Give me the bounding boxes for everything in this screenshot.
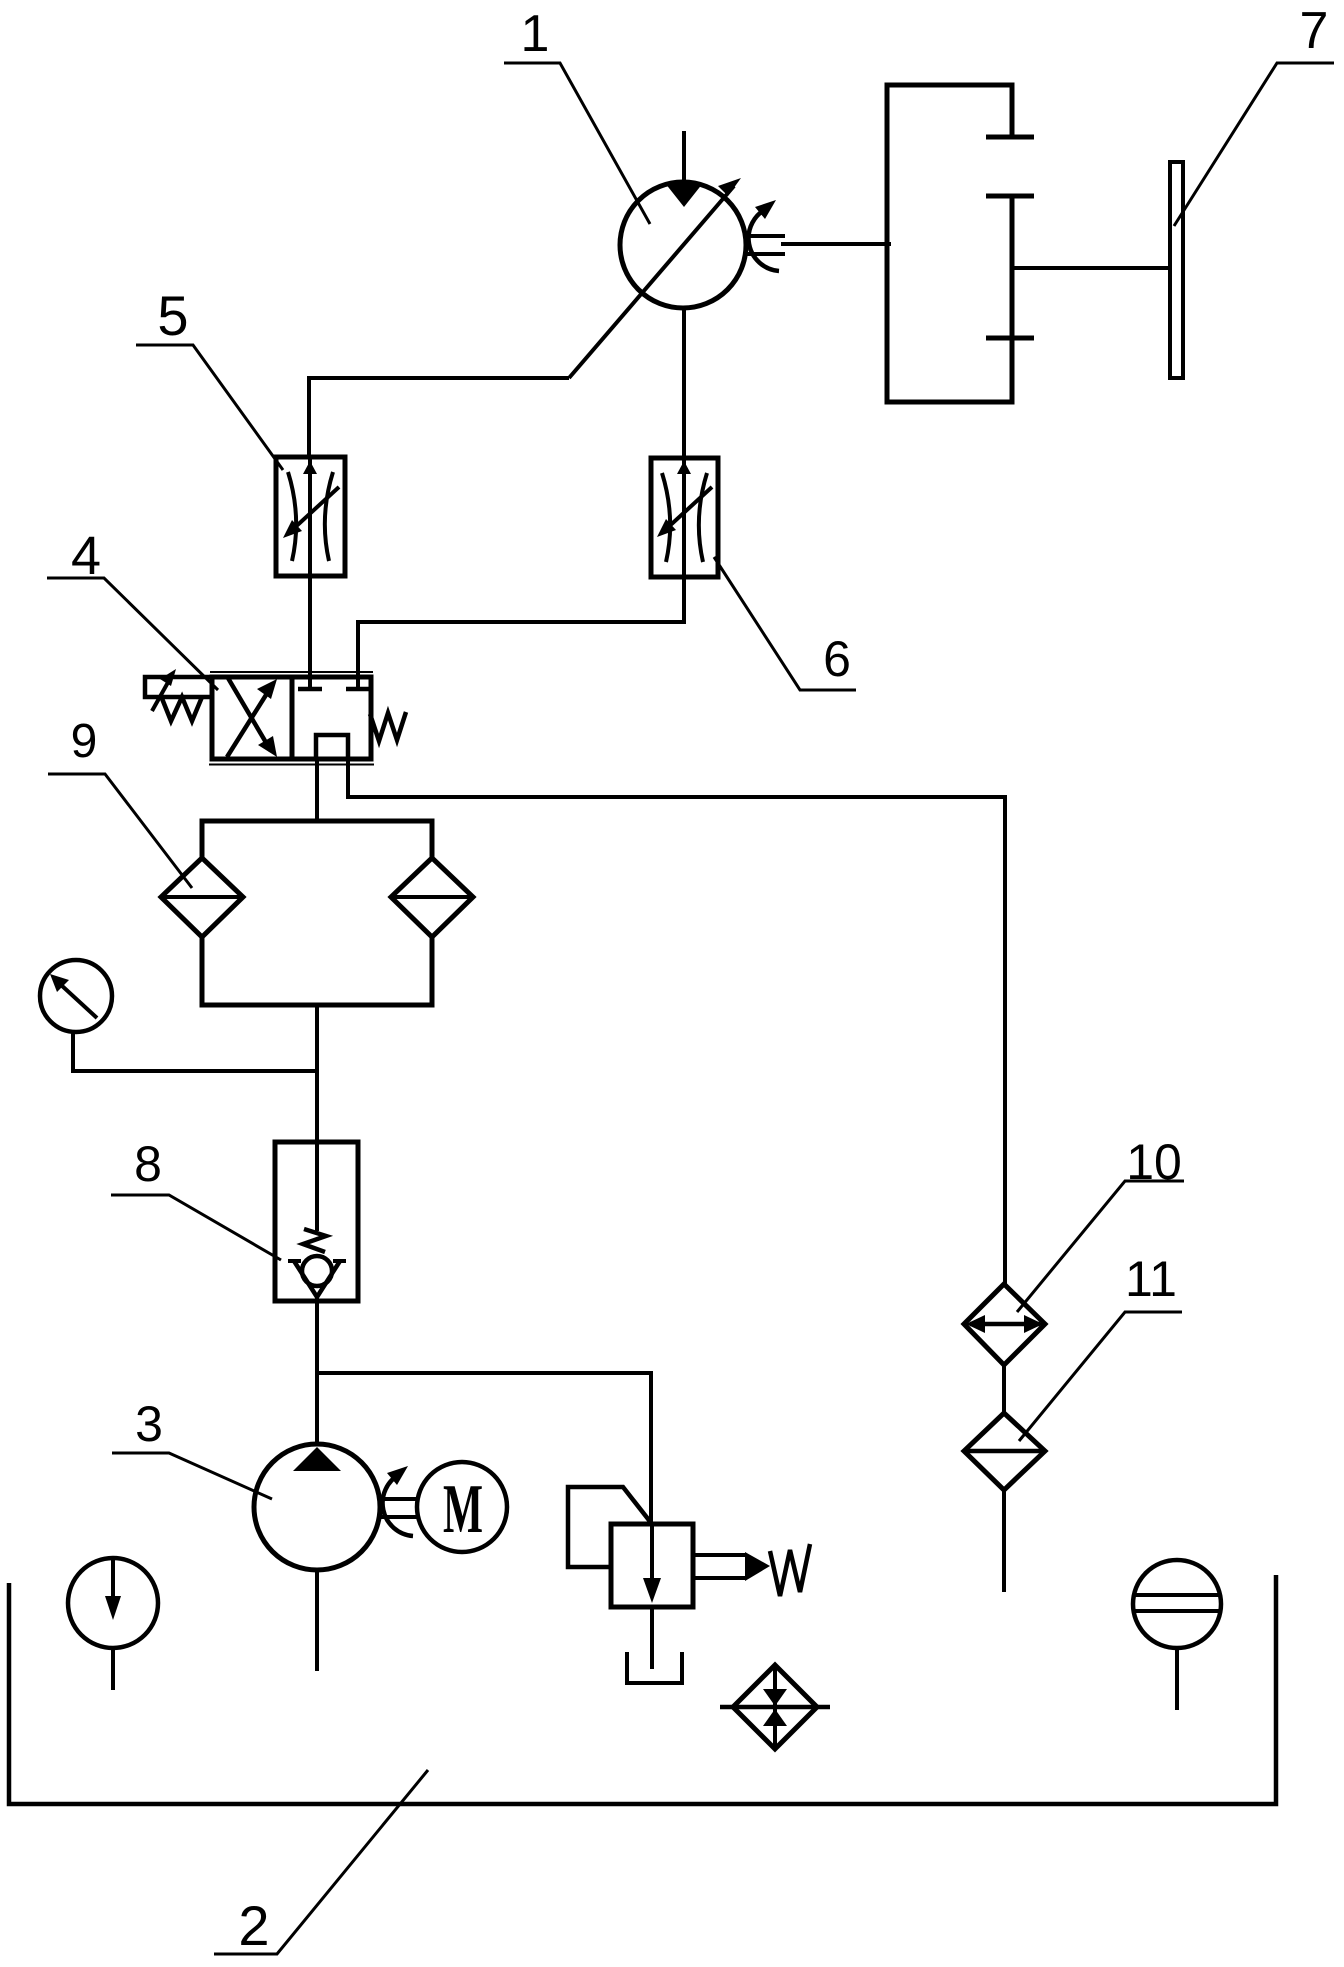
strainer tail line (111, 1648, 115, 1690)
wire filter block down (315, 1005, 319, 1142)
valve 5 internal arrow up (308, 457, 312, 576)
svg-text:1: 1 (521, 5, 550, 63)
directional valve 4 body (212, 677, 371, 759)
check valve spring (303, 1229, 326, 1252)
wire valve 6 to directional valve 4 (358, 577, 684, 689)
relief valve square (611, 1524, 693, 1607)
air breather lower arrow (763, 1709, 787, 1726)
pump/motor U1 circle (620, 182, 746, 308)
leader line from 2 to tank (214, 1770, 428, 1954)
flywheel 7 (1170, 162, 1183, 378)
gearbox output shaft (1012, 266, 1170, 270)
gearbox 7 housing (887, 85, 1012, 402)
valve 5 throttle arcs (288, 472, 333, 561)
valve 4 solenoid box (145, 677, 212, 697)
tank 2 outline (9, 1575, 1276, 1804)
pump 3 suction line (315, 1570, 319, 1671)
directional valve 4 thin rails (209, 672, 374, 765)
label 4 (71, 526, 101, 586)
relief valve spring channel (693, 1555, 746, 1578)
gearbox clutch tick middle (986, 194, 1034, 199)
valve 4 bottom U port (316, 735, 348, 759)
label 1 (521, 5, 550, 63)
wire filter 11 into tank (1002, 1490, 1006, 1592)
svg-text:8: 8 (134, 1136, 162, 1192)
air breather through line (720, 1705, 830, 1710)
pump 1 variable displacement arrow (569, 186, 734, 378)
svg-text:11: 11 (1125, 1251, 1177, 1307)
label 7 (1300, 2, 1329, 60)
svg-text:2: 2 (238, 1894, 269, 1957)
svg-text:9: 9 (71, 715, 98, 768)
gauge branch wire (73, 1032, 317, 1071)
gearbox clutch tick lower (986, 336, 1034, 341)
check valve outlet line (315, 1297, 319, 1373)
label 8 (134, 1136, 162, 1192)
relief valve spring arrow (745, 1552, 770, 1581)
check valve seat serifs (288, 1259, 346, 1263)
relief valve drain tank symbol (627, 1652, 682, 1683)
label 11 (1125, 1251, 1177, 1307)
branch wire to relief valve (317, 1373, 651, 1524)
air breather upper arrow (763, 1689, 787, 1706)
leader line from 3 to pump (112, 1453, 272, 1499)
label 3 (135, 1396, 163, 1452)
directional valve 4 divider (290, 677, 295, 759)
pump 1 rotation arrow arc (749, 208, 779, 271)
check valve ball (302, 1256, 332, 1286)
svg-text:M: M (443, 1471, 483, 1548)
wire between filter 10 and 11 (1002, 1365, 1006, 1413)
filter block 9 outline (202, 821, 432, 1005)
check valve seat (294, 1261, 340, 1297)
pressure gauge circle (40, 960, 112, 1032)
pump 1 coupling lines (746, 236, 785, 254)
leader line from 5 to valve (136, 345, 283, 470)
label 5 (157, 284, 188, 347)
wire valve 5 to directional valve 4 (308, 576, 312, 689)
svg-text:3: 3 (135, 1396, 163, 1452)
pump 3 rotation arrow (383, 1474, 413, 1536)
level gauge tail (1175, 1648, 1179, 1710)
wire to pump 3 (315, 1373, 319, 1444)
pump 3 circle (254, 1444, 380, 1570)
level gauge lines (1134, 1595, 1220, 1611)
svg-text:5: 5 (157, 284, 188, 347)
wire pump variable control to flow valve 5 (309, 378, 569, 457)
label 6 (823, 631, 851, 687)
gearbox clutch tick top (986, 135, 1034, 140)
label 2 (238, 1894, 269, 1957)
leader line from 4 to solenoid (47, 578, 218, 690)
relief valve internal arrow (650, 1524, 654, 1580)
leader line from valve 6 to label (714, 557, 856, 690)
filter 11 diamond (964, 1413, 1045, 1490)
filter 10 arrows (970, 1322, 1040, 1327)
pump 1 inlet line (682, 131, 686, 184)
filter block left diamond (161, 858, 243, 937)
wire valve 4 to filter block (315, 759, 319, 821)
electric motor M circle (417, 1462, 507, 1552)
valve 6 throttle arcs (662, 473, 707, 562)
leader line from 9 to filter (48, 774, 192, 888)
pump 3 shaft coupling (380, 1499, 418, 1517)
shaft to gearbox (781, 242, 891, 246)
filter block right diamond (391, 858, 473, 937)
svg-text:7: 7 (1300, 2, 1329, 60)
flow control valve 5 body (276, 457, 345, 576)
valve 4 crossed arrow 2 (227, 687, 271, 757)
gauge needle (60, 984, 97, 1018)
valve 6 internal arrow up (682, 458, 686, 577)
check valve inlet line (315, 1071, 319, 1231)
suction strainer circle (68, 1558, 158, 1648)
flow control valve 6 body (651, 458, 718, 577)
pump 1 inlet arrowhead (665, 183, 703, 207)
filter right diamond line (391, 895, 473, 899)
valve 4 left spring (161, 696, 202, 721)
motor M letter (443, 1471, 483, 1548)
relief valve pilot box (568, 1487, 652, 1567)
filter left diamond line (161, 895, 243, 899)
check valve 8 box (275, 1142, 358, 1301)
label 10 (1126, 1134, 1182, 1190)
valve 4 crossed arrow 1 (228, 678, 271, 751)
relief valve drain line (650, 1607, 654, 1669)
svg-text:6: 6 (823, 631, 851, 687)
pump 3 outlet triangle (293, 1447, 341, 1471)
wire pump bottom to flow valve 6 (682, 308, 686, 458)
valve 6 adjust arrow (664, 487, 712, 531)
valve 4 right spring (370, 712, 406, 741)
leader line to pump 1 (504, 63, 650, 224)
label 9 (71, 715, 98, 768)
valve 4 blocked port tick left (298, 687, 322, 692)
filter 10 diamond (964, 1284, 1045, 1365)
valve 4 solenoid arrow (152, 677, 171, 711)
valve 4 blocked port tick right (346, 687, 370, 692)
air breather diamond (733, 1665, 817, 1749)
strainer down arrow (111, 1559, 115, 1598)
relief valve spring (770, 1544, 810, 1596)
filter 11 line (964, 1449, 1045, 1454)
level gauge circle (1133, 1560, 1221, 1648)
leader line from 8 to check valve (111, 1195, 281, 1260)
leader line from 7 to flywheel (1174, 63, 1334, 226)
air breather vertical line (773, 1665, 777, 1749)
leader line from 10 (1017, 1181, 1184, 1312)
valve 5 adjust arrow (291, 487, 339, 531)
wire valve 4 to right branch (348, 759, 1005, 1284)
leader line from 11 (1019, 1312, 1182, 1441)
